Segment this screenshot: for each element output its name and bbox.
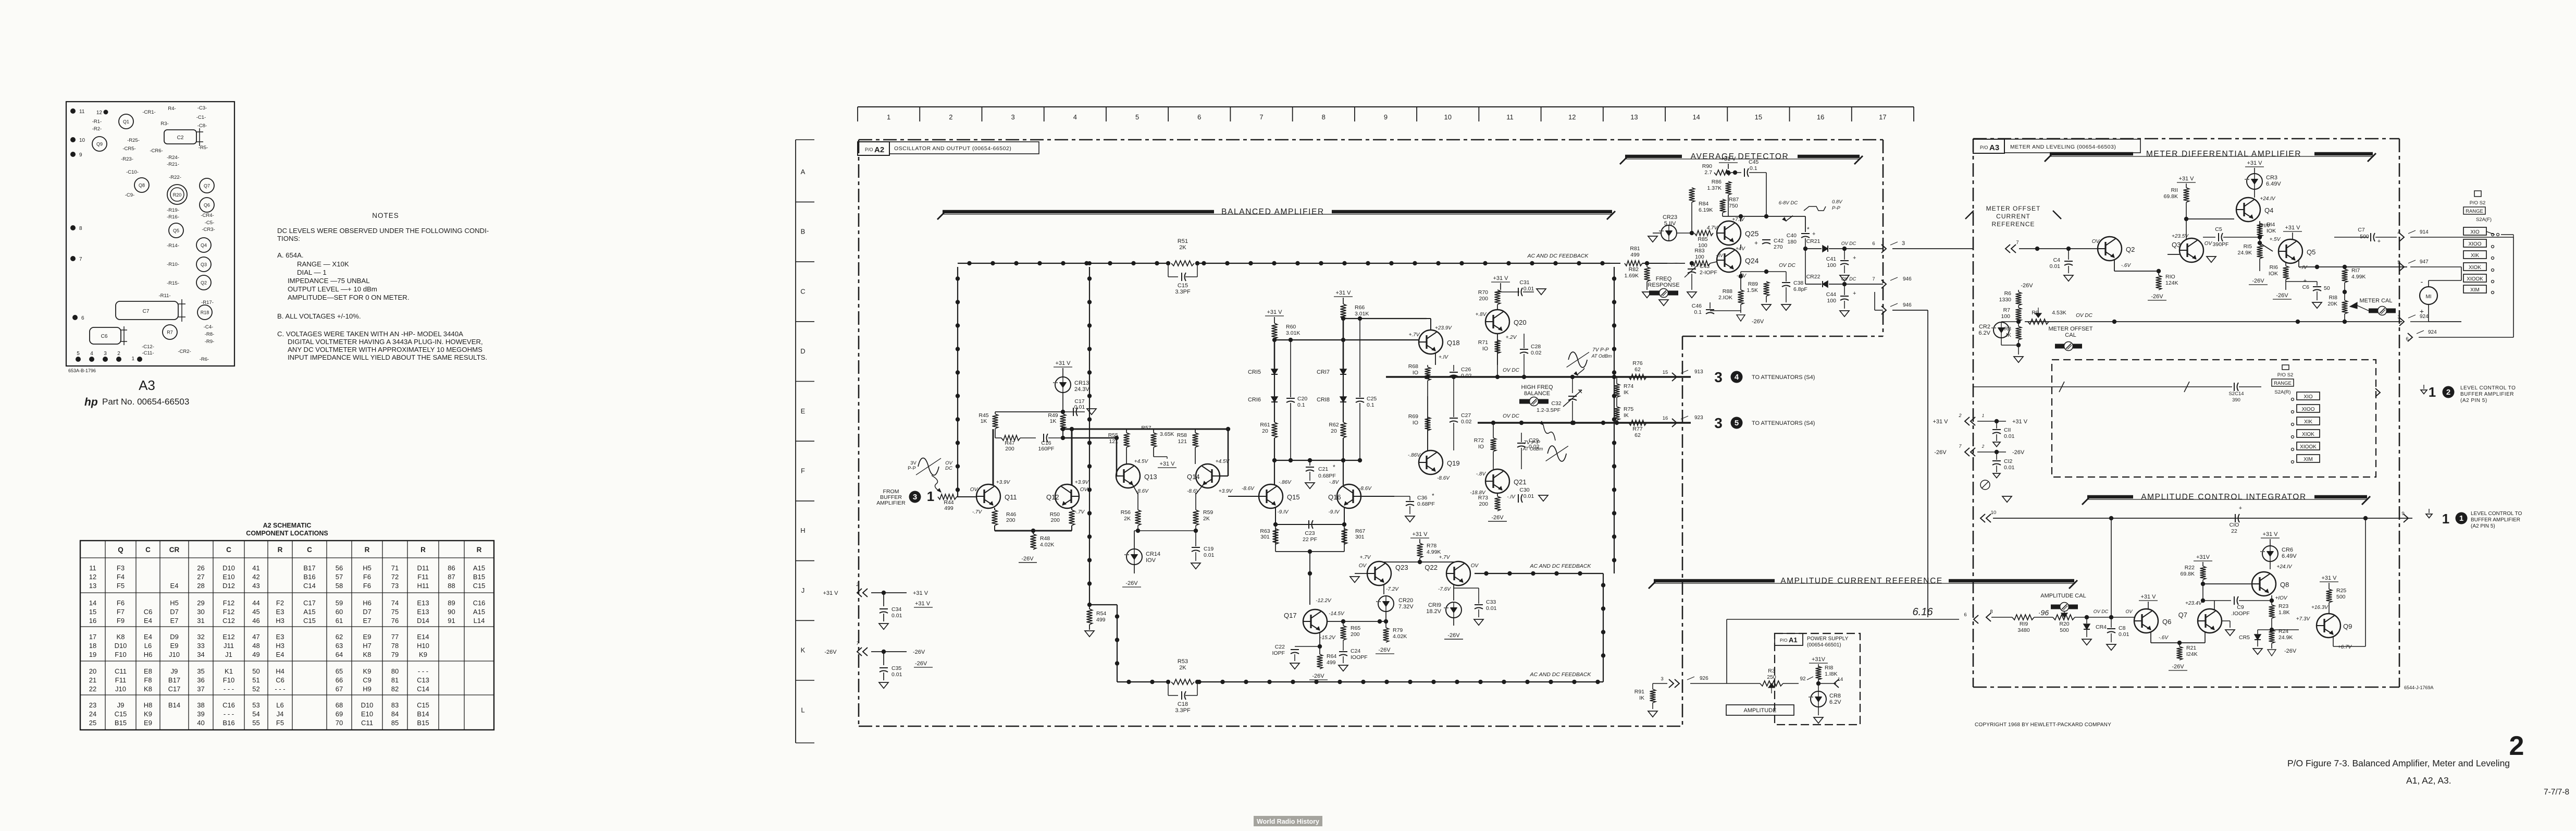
svg-text:Q2: Q2 xyxy=(2126,246,2135,253)
svg-text:J11: J11 xyxy=(224,642,234,650)
svg-text:B15: B15 xyxy=(417,719,429,727)
svg-text:CR5: CR5 xyxy=(2239,634,2250,641)
wire collector bus y883 xyxy=(1272,458,1362,462)
svg-text:J10: J10 xyxy=(169,651,180,658)
svg-text:F6: F6 xyxy=(363,582,371,590)
svg-text:3.01K: 3.01K xyxy=(1355,311,1369,317)
svg-text:Q3: Q3 xyxy=(201,262,207,267)
svg-text:0.01: 0.01 xyxy=(1204,552,1215,558)
svg-text:+24.IV: +24.IV xyxy=(2276,564,2293,570)
svg-text:924: 924 xyxy=(2428,329,2437,335)
resistor R19 3480 xyxy=(2012,615,2053,633)
label +31V mid xyxy=(1154,457,1176,468)
svg-text:RESPONSE: RESPONSE xyxy=(1648,282,1679,288)
svg-text:K8: K8 xyxy=(363,651,371,658)
svg-text:C17: C17 xyxy=(168,685,181,693)
svg-text:77: 77 xyxy=(391,633,399,641)
svg-text:IOK: IOK xyxy=(2267,228,2276,234)
resistor R67 301 xyxy=(1342,528,1366,544)
svg-text:+: + xyxy=(1853,290,1856,297)
board capacitor C2 xyxy=(164,128,203,146)
svg-text:50: 50 xyxy=(2324,285,2330,291)
capacitor C46 0.1 xyxy=(1692,302,1741,315)
svg-text:3: 3 xyxy=(1902,240,1905,247)
svg-text:AMPLITUDE—SET FOR 0 ON METER.: AMPLITUDE—SET FOR 0 ON METER. xyxy=(288,294,410,301)
rail +31V Q5 xyxy=(2283,225,2302,239)
svg-text:-12.2V: -12.2V xyxy=(1316,598,1332,604)
svg-text:+31 V: +31 V xyxy=(2140,594,2156,600)
label OV DC bus2 xyxy=(1503,413,1519,419)
resistor R16 10K xyxy=(2269,263,2292,299)
svg-text:F6: F6 xyxy=(117,599,125,607)
svg-text:FREQ: FREQ xyxy=(1656,276,1672,282)
capacitor C34 0.01 xyxy=(879,593,902,629)
svg-text:24.3V: 24.3V xyxy=(1074,386,1089,393)
svg-text:-.IV: -.IV xyxy=(1507,494,1516,500)
label OV DC C40 xyxy=(1779,263,1795,268)
svg-text:-.86V: -.86V xyxy=(1408,453,1421,458)
svg-text:+7.IV: +7.IV xyxy=(1732,217,1745,223)
svg-text:5.IIV: 5.IIV xyxy=(1664,221,1676,227)
svg-text:CRI6: CRI6 xyxy=(1248,397,1261,403)
board reference labels xyxy=(92,105,215,362)
svg-text:Q25: Q25 xyxy=(1745,229,1759,238)
svg-text:7: 7 xyxy=(1872,276,1875,282)
svg-text:250: 250 xyxy=(1767,674,1776,680)
board circle Q3 xyxy=(196,257,211,272)
diode CR18 xyxy=(1317,374,1346,422)
svg-text:+31 V: +31 V xyxy=(913,590,928,596)
svg-text:-C12-: -C12- xyxy=(142,344,154,350)
svg-text:CR3: CR3 xyxy=(2266,175,2277,181)
svg-text:hp: hp xyxy=(84,396,98,408)
svg-text:OV DC: OV DC xyxy=(1841,241,1856,246)
wire Q6 Q7 emitters xyxy=(2151,632,2205,645)
svg-text:0.02: 0.02 xyxy=(1531,350,1542,356)
svg-text:-R6-: -R6- xyxy=(200,357,209,362)
svg-text:46: 46 xyxy=(252,617,259,625)
svg-text:0.68PF: 0.68PF xyxy=(1417,501,1435,507)
svg-text:C34: C34 xyxy=(891,606,901,613)
handwritten 96 xyxy=(2038,608,2049,617)
svg-text:XIK: XIK xyxy=(2471,253,2479,259)
svg-text:+.2V: +.2V xyxy=(1506,335,1517,340)
svg-text:F7: F7 xyxy=(117,608,125,616)
svg-text:18.2V: 18.2V xyxy=(1426,608,1441,615)
svg-text:C15: C15 xyxy=(417,701,429,709)
svg-text:Q8: Q8 xyxy=(2280,581,2289,589)
svg-text:R79: R79 xyxy=(1393,627,1403,633)
svg-text:F4: F4 xyxy=(117,573,125,581)
world radio history badge xyxy=(1254,816,1322,826)
svg-text:Q11: Q11 xyxy=(1005,493,1017,501)
svg-text:15: 15 xyxy=(1663,370,1668,375)
svg-text:+3.9V: +3.9V xyxy=(1075,480,1089,485)
svg-text:-26V: -26V xyxy=(1021,556,1034,562)
resistor R65 200 xyxy=(1341,621,1361,640)
capacitor C27 0.02 xyxy=(1450,396,1472,450)
resistor R49 1K xyxy=(1048,412,1066,438)
svg-text:6544-J-1769A: 6544-J-1769A xyxy=(2404,685,2434,690)
wire output bus 913 xyxy=(1386,375,1691,379)
svg-text:C15: C15 xyxy=(303,617,316,625)
svg-text:R21: R21 xyxy=(2186,645,2196,651)
svg-text:-8.6V: -8.6V xyxy=(1187,488,1200,494)
transistor Q21 xyxy=(1470,469,1526,500)
svg-text:946: 946 xyxy=(1903,302,1912,308)
wire emitter bridge xyxy=(995,529,1072,533)
resistor R60 3.01K xyxy=(1272,323,1301,369)
svg-text:C36: C36 xyxy=(1417,495,1427,501)
svg-text:-R17-: -R17- xyxy=(201,300,214,305)
svg-text:49: 49 xyxy=(252,651,259,658)
svg-text:24: 24 xyxy=(89,710,96,718)
svg-text:P/O: P/O xyxy=(1780,638,1788,643)
svg-text:R71: R71 xyxy=(1478,339,1488,346)
svg-text:CRI9: CRI9 xyxy=(1428,602,1441,608)
svg-text:+: + xyxy=(2303,278,2307,284)
svg-text:62: 62 xyxy=(1634,366,1641,373)
svg-text:H: H xyxy=(800,527,805,534)
svg-text:90: 90 xyxy=(448,608,455,616)
sine bus1 xyxy=(1567,347,1612,375)
svg-text:36: 36 xyxy=(197,676,204,684)
capacitor C6 50 xyxy=(2286,278,2330,308)
svg-text:R87: R87 xyxy=(1729,197,1739,203)
svg-text:R3: R3 xyxy=(1768,668,1775,674)
svg-text:Q9: Q9 xyxy=(2343,622,2352,630)
svg-text:124K: 124K xyxy=(2165,280,2178,286)
svg-text:AMPLIFIER: AMPLIFIER xyxy=(876,500,906,506)
zener CR19 18.2V xyxy=(1426,585,1463,639)
svg-text:D7: D7 xyxy=(363,608,371,616)
zener CR13 24.3V xyxy=(995,360,1089,414)
banner AMPLITUDE CONTROL INTEGRATOR xyxy=(2082,493,2370,505)
svg-text:6.2V: 6.2V xyxy=(1978,330,1990,336)
svg-text:RI8: RI8 xyxy=(2329,295,2338,301)
board circle R7 xyxy=(163,325,177,339)
svg-text:Q6: Q6 xyxy=(2162,618,2171,626)
svg-text:CR21: CR21 xyxy=(1806,238,1820,245)
svg-text:0.02: 0.02 xyxy=(1461,373,1472,379)
svg-text:-26V: -26V xyxy=(1312,673,1324,679)
trimmer C43 2-10PF xyxy=(1685,261,1717,298)
svg-text:J9: J9 xyxy=(171,667,178,675)
svg-text:C: C xyxy=(226,546,231,554)
svg-text:D12: D12 xyxy=(222,582,235,590)
svg-text:4: 4 xyxy=(90,351,93,357)
svg-text:-CR1-: -CR1- xyxy=(142,109,155,115)
wire Q5 base xyxy=(2260,243,2273,251)
svg-text:C43: C43 xyxy=(1700,263,1710,270)
svg-text:OV DC: OV DC xyxy=(1503,413,1519,419)
resistor R86 1.37K xyxy=(1707,173,1731,216)
copyright line xyxy=(1975,722,2111,728)
svg-text:1.5K: 1.5K xyxy=(1747,287,1758,294)
svg-text:RANGE: RANGE xyxy=(2274,381,2292,386)
figure caption xyxy=(2287,758,2510,768)
board pin numbers xyxy=(77,109,134,362)
svg-text:C21: C21 xyxy=(1318,466,1328,472)
transistor Q22 xyxy=(1425,555,1479,592)
svg-text:+31V: +31V xyxy=(2196,554,2210,560)
svg-text:-8.6V: -8.6V xyxy=(1437,475,1450,481)
svg-text:+31 V: +31 V xyxy=(2012,419,2028,425)
svg-text:LEVEL CONTROL TO: LEVEL CONTROL TO xyxy=(2471,511,2522,517)
svg-text:F10: F10 xyxy=(223,676,234,684)
svg-text:E7: E7 xyxy=(363,617,371,625)
svg-text:A15: A15 xyxy=(303,608,315,616)
wire feedback top bus xyxy=(958,253,1610,265)
svg-text:DC LEVELS WERE OBSERVED UNDER: DC LEVELS WERE OBSERVED UNDER THE FOLLOW… xyxy=(277,227,489,235)
input FROM BUFFER AMPLIFIER xyxy=(876,488,906,506)
page number 2 xyxy=(2509,731,2524,761)
svg-text:C32: C32 xyxy=(1551,400,1561,407)
svg-text:38: 38 xyxy=(197,701,204,709)
svg-text:C6: C6 xyxy=(101,334,108,339)
capacitor C5 390PF xyxy=(2203,226,2262,248)
svg-text:5: 5 xyxy=(1735,419,1739,427)
svg-text:R20: R20 xyxy=(173,192,182,198)
svg-text:P-P: P-P xyxy=(1832,205,1841,211)
svg-text:RIO: RIO xyxy=(2165,274,2175,280)
svg-text:C14: C14 xyxy=(417,685,429,693)
svg-text:6: 6 xyxy=(1197,113,1201,121)
node 3-1 input badge xyxy=(909,488,935,504)
power entry A3 -26V xyxy=(1934,444,2025,456)
svg-text:6-8V DC: 6-8V DC xyxy=(1779,200,1798,206)
svg-text:18: 18 xyxy=(89,642,96,650)
svg-text:51: 51 xyxy=(252,676,259,684)
svg-text:R88: R88 xyxy=(1723,288,1732,295)
capacitor C12 0.01 xyxy=(1992,452,2015,478)
diode CR4 xyxy=(2082,617,2107,645)
svg-text:2: 2 xyxy=(949,113,952,121)
svg-text:R60: R60 xyxy=(1286,324,1296,330)
capacitor C33 0.01 xyxy=(1454,588,1497,625)
svg-text:K9: K9 xyxy=(363,667,371,675)
svg-text:42: 42 xyxy=(252,573,259,581)
svg-text:R: R xyxy=(420,546,426,554)
A3 title box xyxy=(1973,139,2140,153)
wire integrator top bus y994 xyxy=(1980,510,2412,522)
resistor R91 1K xyxy=(1634,683,1657,717)
svg-text:A15: A15 xyxy=(473,608,485,616)
svg-text:INPUT IMPEDANCE WILL YIELD ABO: INPUT IMPEDANCE WILL YIELD ABOUT THE SAM… xyxy=(288,353,487,361)
svg-text:3: 3 xyxy=(1011,113,1014,121)
A2 assembly dashed border xyxy=(859,140,1883,726)
resistor R90 2.7 xyxy=(1702,163,1741,176)
svg-text:AMPLITUDE: AMPLITUDE xyxy=(1744,707,1777,714)
svg-text:-26V: -26V xyxy=(1752,319,1764,325)
high freq balance trimmer xyxy=(1519,384,1568,406)
svg-text:+23.9V: +23.9V xyxy=(1435,325,1452,331)
svg-text:F2: F2 xyxy=(276,599,284,607)
wire level control 2 row xyxy=(2375,384,2516,404)
svg-text:R4-: R4- xyxy=(168,106,176,112)
transistor Q24 xyxy=(1717,246,1759,279)
svg-text:J4: J4 xyxy=(277,710,284,718)
wire R66 node line y611 xyxy=(1341,316,1427,321)
badge 3-4 TO ATTENUATORS xyxy=(1714,369,1815,385)
svg-text:C7: C7 xyxy=(143,309,150,314)
svg-text:ANY DC VOLTMETER WITH APPROXIM: ANY DC VOLTMETER WITH APPROXIMATELY 10 M… xyxy=(288,346,482,353)
svg-text:89: 89 xyxy=(448,599,455,607)
svg-text:2: 2 xyxy=(856,582,859,587)
svg-text:B16: B16 xyxy=(222,719,234,727)
resistor R22 69.8K xyxy=(2181,565,2206,586)
svg-text:47: 47 xyxy=(252,633,259,641)
svg-text:-C9-: -C9- xyxy=(125,192,134,198)
svg-text:Q19: Q19 xyxy=(1447,459,1460,467)
svg-text:6.19K: 6.19K xyxy=(1699,207,1713,213)
svg-text:OV: OV xyxy=(1471,563,1479,569)
connector 16 923 xyxy=(1663,415,1703,427)
board circle Q6 xyxy=(200,198,214,212)
svg-text:R66: R66 xyxy=(1355,304,1365,311)
capacitor C35 0.01 xyxy=(879,652,902,688)
svg-text:R83: R83 xyxy=(1694,248,1704,254)
svg-text:Q4: Q4 xyxy=(201,243,207,248)
svg-text:-26V: -26V xyxy=(824,649,837,655)
svg-text:NOTES: NOTES xyxy=(372,212,399,219)
svg-text:6: 6 xyxy=(81,315,84,321)
svg-text:CR8: CR8 xyxy=(1829,693,1841,699)
svg-text:3.3PF: 3.3PF xyxy=(1175,707,1191,714)
capacitor C30 0.01 xyxy=(1497,487,1548,503)
svg-text:COPYRIGHT 1968 BY HEWLETT-P: COPYRIGHT 1968 BY HEWLETT-PACKARD COMPAN… xyxy=(1975,722,2111,728)
svg-text:C15: C15 xyxy=(473,582,486,590)
svg-text:-26V: -26V xyxy=(2252,278,2264,284)
label OV DC bus1 xyxy=(1503,368,1519,373)
svg-text:C15: C15 xyxy=(115,710,127,718)
meter offset rail -26V xyxy=(2018,283,2033,292)
svg-text:-C8-: -C8- xyxy=(197,123,207,129)
svg-text:IOK: IOK xyxy=(2269,271,2278,277)
svg-text:6: 6 xyxy=(1872,241,1875,247)
svg-text:3480: 3480 xyxy=(2017,627,2030,633)
svg-text:K8: K8 xyxy=(144,685,152,693)
svg-text:I24K: I24K xyxy=(2186,651,2198,657)
svg-text:Q7: Q7 xyxy=(2178,611,2187,619)
svg-text:P/O: P/O xyxy=(865,147,873,152)
svg-text:E14: E14 xyxy=(417,633,429,641)
svg-text:6: 6 xyxy=(1964,612,1966,618)
svg-text:C6: C6 xyxy=(276,676,284,684)
svg-text:RANGE — X10K: RANGE — X10K xyxy=(297,260,349,268)
svg-text:+7.3V: +7.3V xyxy=(2296,616,2311,622)
svg-text:+31 V: +31 V xyxy=(1055,360,1071,366)
resistor R44 499 xyxy=(938,494,976,511)
row letter rail xyxy=(796,140,814,743)
transistor Q18 xyxy=(1409,325,1460,360)
zener CR6 6.49V xyxy=(2260,531,2297,570)
svg-text:Q4: Q4 xyxy=(2264,206,2273,214)
svg-text:-C3-: -C3- xyxy=(197,105,207,111)
svg-text:88: 88 xyxy=(448,582,455,590)
svg-text:*: * xyxy=(1333,463,1335,471)
svg-text:AT OdBm: AT OdBm xyxy=(1522,446,1543,451)
board capacitor C6 xyxy=(90,326,127,345)
svg-text:Q23: Q23 xyxy=(1395,564,1408,571)
svg-text:IOPF: IOPF xyxy=(1272,650,1285,656)
wire feedback bottom bus xyxy=(1117,671,1603,684)
svg-text:200: 200 xyxy=(1050,517,1060,523)
svg-text:XIOK: XIOK xyxy=(2302,432,2314,437)
svg-text:947: 947 xyxy=(2420,259,2429,265)
svg-text:200: 200 xyxy=(1351,631,1360,638)
svg-text:100: 100 xyxy=(2001,313,2010,320)
resistor R76 62 xyxy=(1629,360,1646,380)
svg-text:R18: R18 xyxy=(201,310,209,315)
svg-text:499: 499 xyxy=(1096,617,1106,623)
label -26V R88 xyxy=(1737,315,1764,325)
svg-text:160PF: 160PF xyxy=(1038,446,1055,452)
svg-text:20: 20 xyxy=(89,667,96,675)
svg-text:19: 19 xyxy=(89,651,96,658)
svg-text:15: 15 xyxy=(1755,113,1762,121)
svg-text:Q24: Q24 xyxy=(1745,256,1759,265)
svg-text:P/O: P/O xyxy=(1980,145,1988,150)
svg-text:6.2V: 6.2V xyxy=(1829,699,1841,705)
svg-text:H3: H3 xyxy=(276,642,284,650)
svg-text:H6: H6 xyxy=(363,599,371,607)
svg-text:500: 500 xyxy=(2060,627,2069,633)
svg-text:-C11-: -C11- xyxy=(142,350,154,356)
connector 15 913 xyxy=(1663,369,1703,381)
svg-text:F11: F11 xyxy=(417,573,428,581)
svg-text:44: 44 xyxy=(252,599,259,607)
svg-text:POWER SUPPLY: POWER SUPPLY xyxy=(1807,636,1849,642)
capacitor C45 0.1 xyxy=(1744,159,1766,216)
S2 range switch dashed box xyxy=(2052,360,2376,477)
svg-text:-R15-: -R15- xyxy=(167,280,179,286)
svg-text:5: 5 xyxy=(77,351,80,357)
svg-text:R51: R51 xyxy=(1178,238,1188,245)
svg-text:(A2 PIN 5): (A2 PIN 5) xyxy=(2460,398,2487,404)
wire Q4 emitter chain xyxy=(2259,221,2260,245)
svg-text:IK: IK xyxy=(1624,412,1629,419)
svg-text:AC AND DC FEEDBACK: AC AND DC FEEDBACK xyxy=(1527,253,1589,259)
svg-text:L6: L6 xyxy=(276,701,283,709)
svg-text:-R16-: -R16- xyxy=(167,214,179,220)
svg-text:IK: IK xyxy=(1639,695,1644,701)
svg-text:CAL: CAL xyxy=(2065,332,2076,338)
svg-text:Q21: Q21 xyxy=(1514,478,1527,486)
svg-text:1: 1 xyxy=(2459,514,2463,523)
svg-text:12: 12 xyxy=(89,573,96,581)
svg-text:R57: R57 xyxy=(1141,425,1151,431)
svg-text:52: 52 xyxy=(252,685,259,693)
svg-text:METER AND LEVELING (00654-6650: METER AND LEVELING (00654-66503) xyxy=(2010,144,2116,150)
svg-text:11: 11 xyxy=(89,564,96,572)
svg-text:1: 1 xyxy=(2442,511,2449,527)
svg-text:+31 V: +31 V xyxy=(1720,156,1736,162)
svg-text:TO ATTENUATORS (S4): TO ATTENUATORS (S4) xyxy=(1752,374,1815,381)
resistor R68 10 xyxy=(1408,363,1431,396)
wire Q24 Q25 emitters xyxy=(1739,245,1743,290)
board circle R18 xyxy=(197,305,212,320)
wire Q5 collector out y512 xyxy=(2299,261,2407,269)
svg-text:8ALANCE: 8ALANCE xyxy=(1524,390,1550,397)
resistor R87 750 xyxy=(1720,197,1769,218)
svg-text:OV DC: OV DC xyxy=(1841,276,1856,282)
svg-text:OV: OV xyxy=(2092,239,2100,245)
svg-text:13: 13 xyxy=(89,582,96,590)
svg-text:2: 2 xyxy=(2509,731,2524,761)
svg-text:11: 11 xyxy=(79,109,85,115)
wire feedback right verticals xyxy=(1601,267,1616,682)
